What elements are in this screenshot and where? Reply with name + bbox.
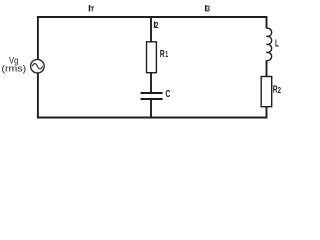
resistor R1 body — [147, 42, 157, 73]
svg-text:1: 1 — [165, 50, 168, 59]
voltage source Vg circle with sine — [31, 59, 45, 73]
svg-text:(rms): (rms) — [2, 63, 27, 74]
resistor R2 body — [261, 77, 272, 107]
wire top horizontal — [37, 16, 268, 18]
inductor L coil — [266, 28, 271, 60]
svg-text:2: 2 — [155, 21, 159, 30]
capacitor C bottom plate — [141, 98, 163, 100]
wire bottom horizontal — [37, 117, 268, 119]
wire left upper (source top lead) — [37, 16, 39, 60]
svg-text:3: 3 — [206, 5, 210, 14]
capacitor C top plate — [141, 92, 163, 94]
wire right upper (node to inductor) — [266, 17, 268, 28]
wire capacitor bottom plate to bottom wire — [150, 100, 152, 118]
svg-text:T: T — [90, 6, 95, 13]
wire inductor to R2 — [266, 60, 268, 76]
wire R2 to bottom wire — [266, 107, 268, 118]
svg-text:L: L — [275, 38, 279, 49]
wire middle branch upper (node to R1) — [150, 17, 152, 42]
wire left lower (source bottom lead) — [37, 73, 39, 119]
wire R1 to capacitor top plate — [150, 73, 152, 93]
svg-text:C: C — [165, 89, 170, 100]
svg-text:2: 2 — [278, 86, 282, 95]
